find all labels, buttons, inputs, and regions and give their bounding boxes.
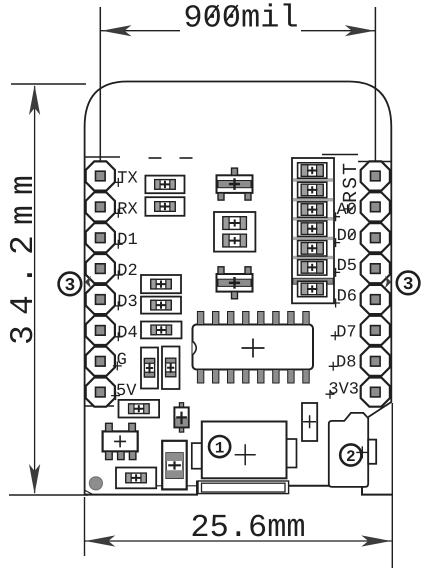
svg-text:25.6mm: 25.6mm [190, 509, 305, 546]
svg-text:D2: D2 [117, 262, 137, 281]
resistor RC7 (right column) [298, 281, 327, 296]
USB connector J1 shield edge [198, 481, 289, 494]
svg-text:34.2mm: 34.2mm [5, 165, 42, 345]
cross tick near D6 [331, 299, 340, 308]
resistor R4 (near D3/D4) [141, 297, 181, 314]
silk segment dash 1 [149, 157, 162, 159]
cross tick near D7 [331, 331, 340, 340]
cross tick near D3 [114, 301, 123, 310]
callout circle 3 left [59, 273, 82, 297]
button SW1 actuator tab [368, 440, 376, 464]
button SW1 (reset) body [329, 413, 368, 487]
svg-text:3: 3 [403, 275, 414, 295]
resistor pair R1 (near TX) [145, 176, 184, 194]
usb connector silk line [143, 485, 200, 487]
pad D4 (left header pin 6) [86, 316, 115, 345]
resistor RC2 (right column) [298, 182, 327, 197]
capacitor C3 (electrolytic, bottom left) [162, 441, 187, 490]
transistor Q1 (SOT-23 top center) [217, 168, 253, 200]
callout circle 2 (button) [340, 444, 361, 465]
pad D5 (right header pin 4) [361, 254, 390, 283]
dimension 900mil extension line left [99, 7, 101, 179]
cross tick near D5 [331, 268, 340, 277]
cross tick near 3V3 [326, 390, 335, 399]
button center cross [356, 446, 368, 458]
slashed zero A0 [349, 205, 356, 213]
resistor R9 (bottom, near mounting hole) [116, 468, 156, 489]
resistor R6 (vertical, near G) [141, 348, 158, 389]
silk segment right of RST [322, 154, 358, 156]
resistor RC4 (right column) [298, 221, 327, 236]
cross tick near A0 [331, 212, 340, 221]
svg-text:5V: 5V [116, 382, 137, 401]
svg-text:D1: D1 [117, 231, 137, 250]
pad 3V3 (right header pin 8) [361, 378, 390, 407]
USB connector J1 body [192, 422, 297, 479]
svg-text:G: G [117, 351, 127, 370]
svg-text:TX: TX [117, 169, 137, 188]
svg-text:3V3: 3V3 [328, 380, 359, 399]
mounting hole via [89, 477, 102, 490]
silk segment right header top [358, 161, 391, 163]
board outline bottom edge [85, 482, 393, 495]
dimension 34.2mm extension line top [11, 83, 86, 85]
resistor pair R2 (near RX) [145, 197, 184, 216]
pad D8 (right header pin 7) [361, 347, 390, 376]
cross tick near G [113, 361, 122, 370]
resistor R8 (below 5V) [119, 400, 160, 418]
svg-text:D7: D7 [336, 323, 356, 342]
pad D3 (left header pin 5) [86, 285, 115, 314]
dimension 34.2mm extension line bottom [9, 494, 88, 496]
dimension 25.6mm extension line left [84, 497, 86, 556]
dimension 25.6mm extension line right [391, 403, 393, 568]
dimension 900mil line and arrows [101, 25, 375, 36]
svg-text:RST: RST [340, 161, 363, 203]
callout circle 1 (USB connector) [209, 436, 230, 457]
cross tick near RST [343, 204, 352, 213]
resistor RC5 (right column) [298, 241, 327, 256]
silk segment left header bottom [85, 405, 114, 407]
USB connector center cross [235, 444, 256, 465]
cross tick near RX [114, 209, 123, 218]
cross tick near TX [114, 178, 123, 187]
svg-text:900mil: 900mil [183, 0, 298, 37]
cross tick near D0 [331, 238, 340, 247]
leader arrowhead left edge [85, 276, 91, 288]
callout circle 3 right [397, 272, 420, 296]
pad TX (left header pin 1) [86, 161, 115, 190]
transistor Q2 (SOT-23 mid center) [217, 267, 253, 299]
diode D1 (small vertical) [174, 403, 188, 432]
silk segment left header top [84, 156, 120, 158]
pad RST (right header pin 1) [361, 161, 390, 190]
pad A0 (right header pin 2) [361, 192, 390, 221]
resistor R5 (near D4) [141, 322, 182, 339]
dimension 34.2mm line and arrows [29, 85, 40, 494]
cross tick near D2 [114, 271, 123, 280]
regulator U2 (SOT-23-5) [103, 423, 138, 459]
leader arrowhead right edge [385, 276, 391, 288]
resistor R3 (near D3) [141, 275, 181, 293]
svg-text:3: 3 [64, 276, 75, 296]
cross tick near 5V [111, 391, 120, 400]
svg-text:D4: D4 [117, 324, 137, 343]
resistor RC6 (right column) [298, 260, 327, 275]
dimension 900mil extension line right [374, 7, 376, 179]
svg-text:RX: RX [117, 200, 137, 219]
svg-text:2: 2 [346, 448, 356, 466]
pad D7 (right header pin 6) [361, 316, 390, 345]
dimension 25.6mm line and arrows [85, 535, 392, 546]
IC U1 (16-pin SOIC) [193, 325, 314, 370]
pad RX (left header pin 2) [86, 192, 115, 221]
resistor RC1 (right column) [298, 163, 327, 178]
svg-text:1: 1 [215, 439, 225, 457]
capacitor C4 (near button) [302, 403, 317, 441]
pad D0 (right header pin 3) [361, 223, 390, 252]
slashed zero D0 [349, 231, 356, 239]
cross tick near D1 [114, 240, 123, 249]
svg-text:D0: D0 [337, 227, 357, 246]
cross tick near D8 [329, 362, 338, 371]
svg-text:D8: D8 [336, 353, 356, 372]
pad D1 (left header pin 3) [86, 223, 115, 252]
svg-text:D3: D3 [117, 293, 137, 312]
pad D2 (left header pin 4) [86, 254, 115, 283]
pad 5V (left header pin 8) [86, 378, 115, 407]
board outline top and sides [85, 82, 392, 496]
resistor RC3 (right column) [298, 202, 327, 217]
resistor R7 (vertical, near G) [162, 347, 180, 390]
resistor column block (right, 7 resistors) [292, 158, 334, 303]
corner tick bottom-left [85, 491, 93, 495]
capacitor pair C1 C2 (center) [214, 212, 255, 252]
pad D6 (right header pin 5) [361, 285, 390, 314]
silk segment dash 2 [180, 157, 193, 159]
cross tick near D4 [114, 332, 123, 341]
pad G (left header pin 7) [86, 347, 115, 376]
